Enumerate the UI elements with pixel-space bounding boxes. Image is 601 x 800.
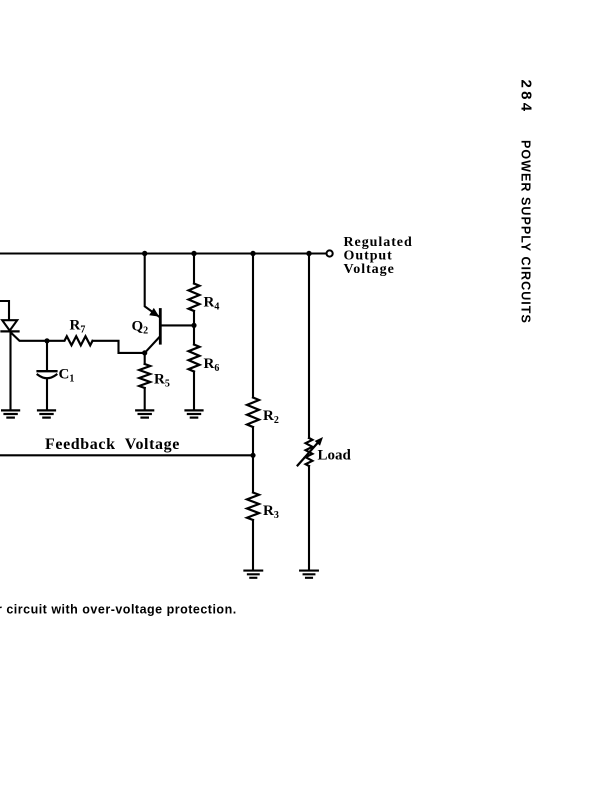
output terminal (Regulated Output Voltage): [327, 250, 333, 256]
wire C1 top lead: [46, 341, 48, 371]
wire R3 bottom lead: [252, 520, 254, 570]
node Load top on rail: [306, 251, 311, 256]
node R4 top on rail: [191, 251, 196, 256]
resistor R3: [247, 493, 259, 521]
svg-text:Voltage: Voltage: [344, 262, 395, 277]
svg-text:POWER SUPPLY CIRCUITS: POWER SUPPLY CIRCUITS: [519, 140, 533, 324]
wire R7 to Q2 emitter node (stepped): [93, 341, 145, 353]
wire R2 top lead: [252, 254, 254, 398]
transistor Q2 lower lead: [145, 337, 160, 353]
SCR D1 triangle (anode): [2, 320, 17, 330]
wire Load top lead: [308, 254, 310, 439]
svg-text:r circuit with over-voltage pr: r circuit with over-voltage protection.: [0, 603, 237, 617]
resistor R2: [247, 398, 259, 428]
SCR gate lead: [11, 333, 47, 341]
ground (C1): [38, 410, 55, 417]
node gate / C1 junction: [44, 338, 49, 343]
node R4/R6/base junction: [191, 323, 196, 328]
SCR D1 cathode bar: [2, 330, 19, 332]
node Q2 collector on rail: [142, 251, 147, 256]
wire SCR cathode to ground: [9, 331, 11, 409]
capacitor C1 top plate: [38, 370, 57, 372]
ground (R6): [186, 410, 203, 417]
svg-text:Feedback Voltage: Feedback Voltage: [45, 436, 180, 453]
resistor R5: [139, 364, 150, 388]
transistor Q2 base bar: [159, 310, 162, 344]
ground (Load): [300, 571, 318, 578]
variable resistor Load zigzag: [306, 438, 313, 466]
resistor R4: [189, 284, 200, 312]
wire feedback voltage line: [0, 454, 253, 456]
wire top output rail: [0, 252, 326, 254]
transistor Q2 base lead to divider: [161, 324, 194, 326]
variable resistor Load arrow: [298, 442, 319, 466]
ground (R3): [244, 571, 262, 578]
wire R5 top lead: [144, 353, 146, 364]
resistor R7: [47, 336, 93, 345]
ground (SCR cathode): [2, 410, 19, 417]
wire R5 bottom lead: [144, 388, 146, 410]
svg-text:Load: Load: [318, 448, 352, 464]
wire SCR anode feed from left edge: [0, 301, 9, 319]
svg-text:284: 284: [518, 80, 535, 115]
node feedback junction: [250, 453, 255, 458]
wire Load bottom lead: [308, 466, 310, 570]
wire R4 to R6: [193, 311, 195, 345]
node Q2 lower lead / R5 / R7 junction: [142, 350, 147, 355]
capacitor C1 curved bottom plate: [38, 375, 57, 379]
transistor Q2 emitter arrowhead: [149, 308, 159, 317]
wire Q2 collector from rail: [145, 254, 160, 318]
wire R6 bottom lead: [193, 372, 195, 410]
wire C1 bottom lead: [46, 379, 48, 410]
ground (R5): [136, 410, 153, 417]
wire R4 top lead: [193, 254, 195, 284]
node R2 top on rail: [250, 251, 255, 256]
resistor R6: [189, 345, 200, 372]
wire R2 to R3 through feedback node: [252, 427, 254, 493]
